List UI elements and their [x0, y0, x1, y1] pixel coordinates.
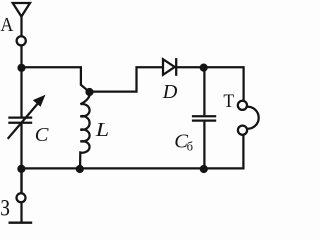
inductor L — [80, 92, 90, 166]
variable capacitor C — [8, 96, 44, 139]
node coil bottom junction — [76, 165, 84, 173]
svg-text:А: А — [0, 14, 13, 36]
antenna terminal — [17, 36, 26, 45]
svg-text:Т: Т — [223, 91, 234, 112]
wire left rail lower — [20, 124, 22, 193]
svg-text:D: D — [162, 81, 178, 103]
headphones T — [238, 101, 259, 135]
antenna — [13, 3, 30, 17]
svg-text:З: З — [0, 195, 10, 220]
earth terminal — [17, 193, 26, 202]
ground — [9, 221, 33, 223]
svg-text:C: C — [35, 124, 49, 146]
wire bottom-left to earth terminal — [20, 168, 22, 193]
svg-text:б: б — [187, 139, 194, 154]
wire right rail lower and bottom bus — [22, 135, 244, 168]
wire diode cathode to top-right corner — [176, 67, 243, 100]
wire Cb bottom to bus — [203, 122, 205, 169]
node Cb bottom junction — [200, 165, 208, 173]
node antenna junction — [17, 64, 25, 72]
node bottom-left junction — [17, 165, 25, 173]
wire junction down to Cb — [203, 68, 205, 116]
node coil top junction — [85, 88, 93, 96]
node diode output junction — [200, 64, 208, 72]
svg-text:L: L — [95, 119, 110, 141]
wire left rail upper — [20, 45, 22, 116]
diode D — [163, 58, 176, 76]
wire top-left to coil top — [22, 67, 89, 91]
wire terminal to ground — [20, 202, 22, 221]
wire antenna lead — [20, 16, 22, 37]
wire coil top to rising branch — [90, 67, 164, 91]
capacitor Cb — [192, 116, 216, 120]
